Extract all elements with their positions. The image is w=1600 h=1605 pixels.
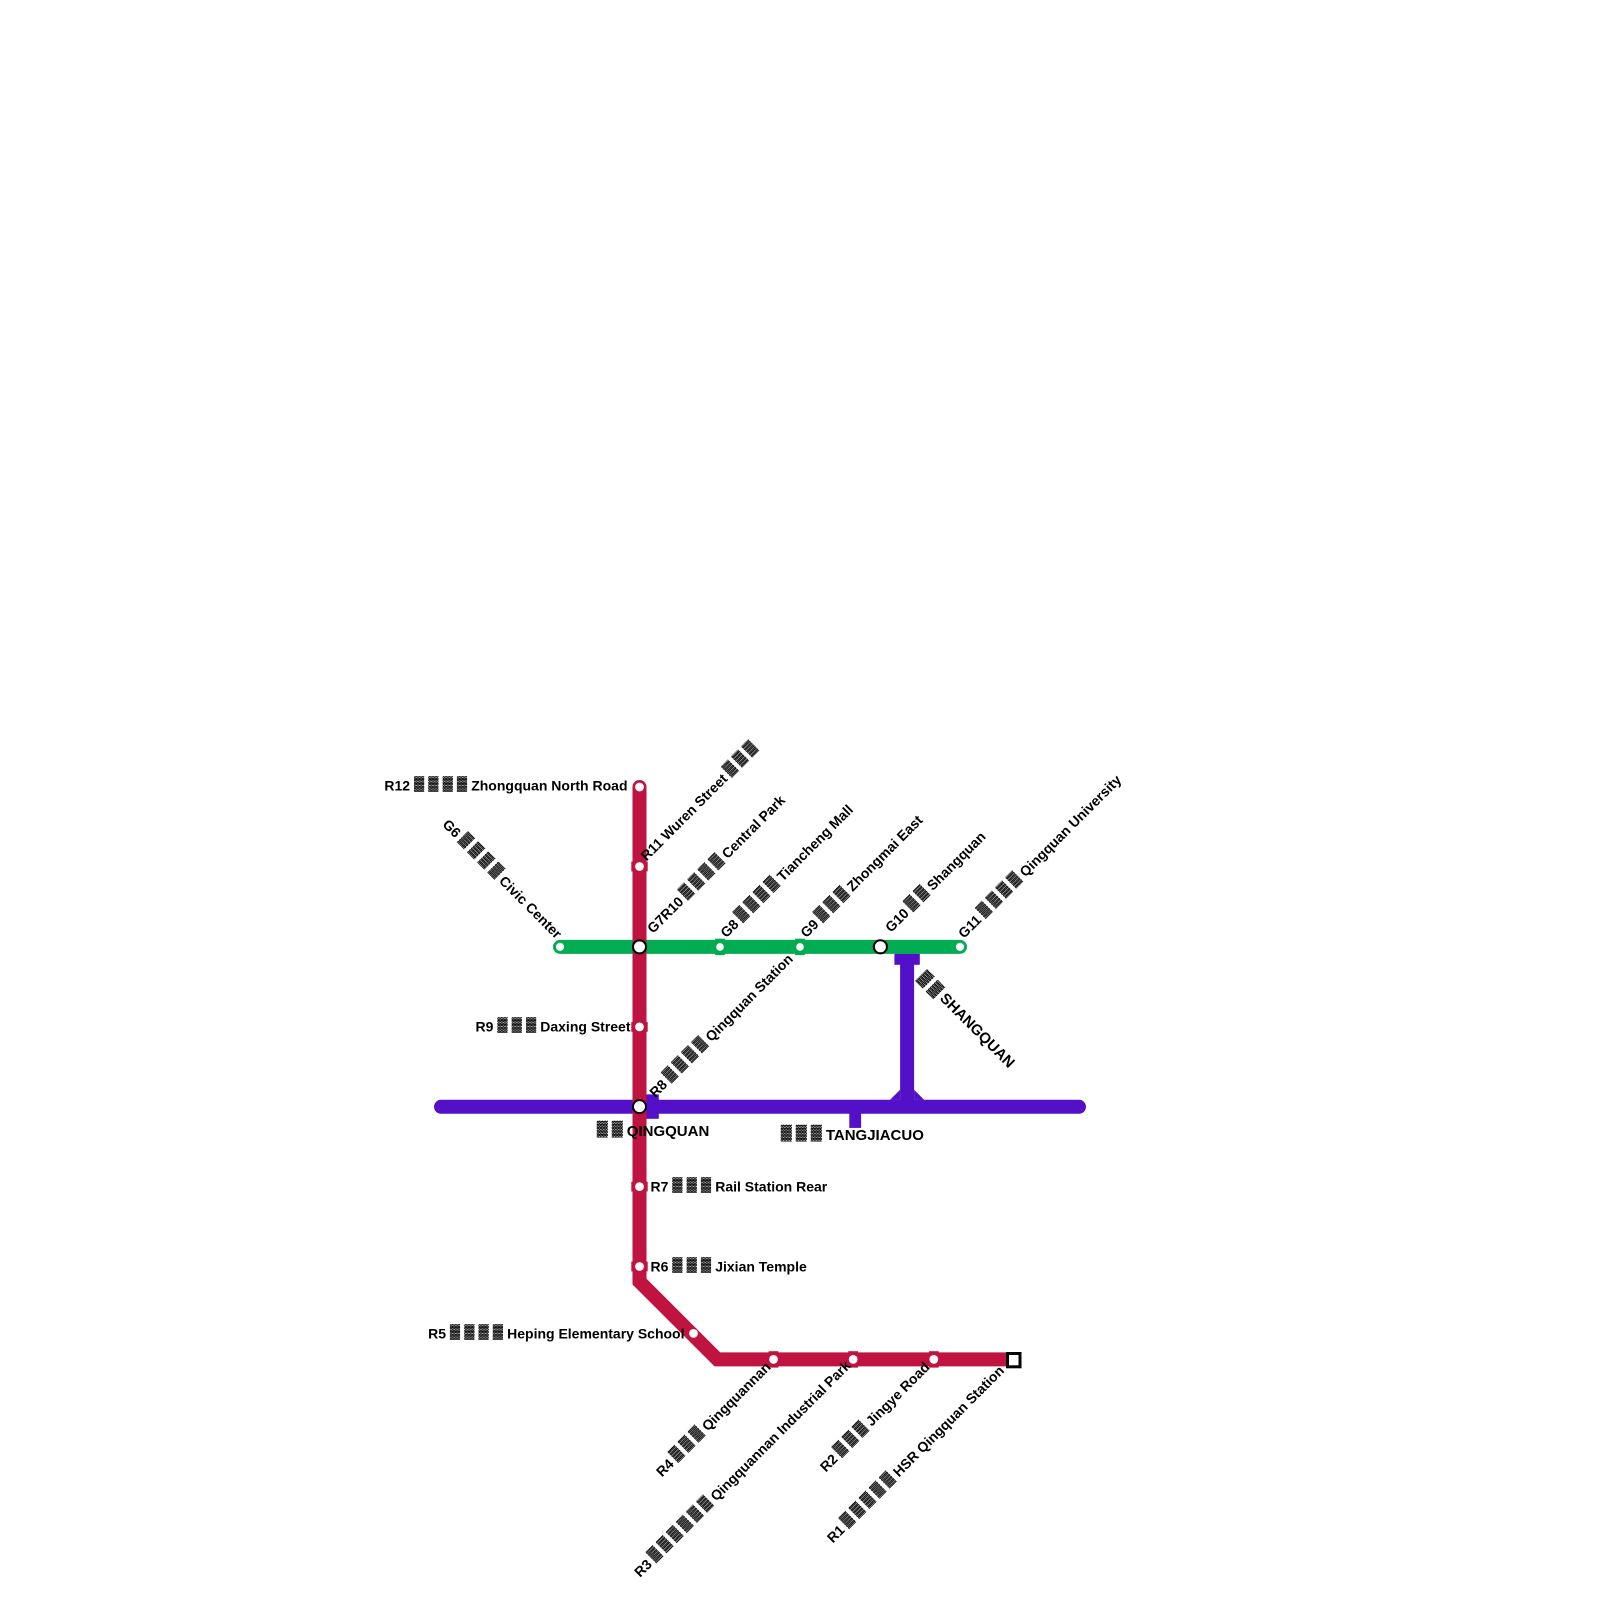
station R6 [631,1262,647,1272]
svg-text:▓▓▓TANGJIACUO: ▓▓▓TANGJIACUO [781,1124,924,1144]
station R11 [631,862,647,872]
terminus G6 [556,943,564,951]
purple branch to Shangquan [900,955,914,1107]
red line R polyline [640,787,1008,1359]
Qingquan rail station tick [646,1094,659,1118]
green line G [560,940,960,954]
branch junction fillets [890,1090,924,1100]
station R4 [769,1351,779,1367]
station R7 [631,1182,647,1192]
station R2 [929,1351,939,1367]
station R5 (diagonal) [684,1324,703,1343]
station R3 [848,1351,858,1367]
terminus G11 [956,943,964,951]
station G9 [795,939,805,955]
station G8 [715,939,725,955]
interchange G7R10 [633,940,646,953]
interchange G10 [874,940,887,953]
terminus R12 [635,783,644,792]
Shangquan terminal bar [894,954,919,965]
purple railway line (main horizontal) [441,1100,1079,1114]
svg-text:▓▓QINGQUAN: ▓▓QINGQUAN [597,1120,710,1140]
Tangjiacuo station tick [849,1107,861,1128]
station R9 [631,1022,647,1032]
interchange QINGQUAN interchange [633,1100,646,1113]
terminus R1 HSR square [1008,1354,1021,1367]
